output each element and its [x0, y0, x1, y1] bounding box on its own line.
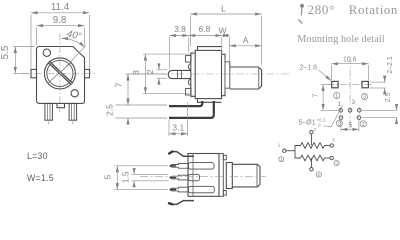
- pin hole 3: [358, 109, 362, 113]
- pin inner lines: [47, 103, 74, 120]
- pin 1: [170, 163, 188, 168]
- wire left bracket: [295, 146, 301, 159]
- pin 2 slot (middle): [188, 174, 199, 181]
- body bottom view: [188, 154, 219, 197]
- svg-text:280°: 280°: [308, 2, 336, 17]
- svg-text:3.8: 3.8: [174, 24, 186, 34]
- centerline horizontal through squares: [327, 84, 374, 86]
- wire tap 2: [310, 134, 312, 146]
- body top cap: [198, 47, 222, 51]
- hole ticks: [341, 107, 360, 121]
- svg-text:2–1.8: 2–1.8: [300, 65, 318, 72]
- svg-text:2: 2: [362, 122, 365, 128]
- svg-text:Rotation: Rotation: [349, 2, 398, 17]
- svg-text:1: 1: [338, 101, 342, 108]
- dimension L: [191, 14, 262, 66]
- pin hole 2: [348, 109, 352, 113]
- svg-text:L: L: [221, 4, 226, 14]
- hole label circled 2 right: [360, 121, 366, 127]
- screw hole top-left: [43, 49, 50, 56]
- dimensions 3.8 6.8 W: [170, 36, 230, 69]
- nub cylinder: [168, 70, 191, 78]
- wire terminal 3': [325, 157, 330, 159]
- right plate: [219, 154, 223, 197]
- pin tips dark: [171, 166, 176, 190]
- svg-text:7: 7: [313, 93, 320, 97]
- bottom center tab: [57, 103, 65, 107]
- svg-text:0: 0: [318, 123, 321, 128]
- bent leg lower (dark): [169, 101, 214, 118]
- svg-text:1.5: 1.5: [121, 171, 131, 183]
- svg-text:2–2.1: 2–2.1: [387, 56, 394, 74]
- left side tab: [31, 69, 37, 77]
- resistor element top: [301, 143, 325, 149]
- svg-text:Mounting hole detail: Mounting hole detail: [297, 34, 384, 45]
- dimension 5 (pins span): [115, 166, 169, 190]
- bracket bottom tab: [186, 89, 192, 96]
- shaft bottom view: [232, 164, 260, 187]
- hole label circled 2 left: [336, 120, 342, 126]
- svg-text:3: 3: [352, 99, 356, 106]
- dimension 2-2.1: [370, 77, 386, 94]
- wire tap 2': [310, 158, 312, 168]
- centerline axis: [131, 73, 291, 75]
- support lug bottom: [172, 201, 194, 205]
- schematic label circled 3: [334, 160, 339, 165]
- svg-text:9.8: 9.8: [53, 15, 67, 26]
- dimension 9.8: [37, 26, 85, 45]
- centerline horizontal front: [22, 72, 97, 74]
- dimension 3.1: [169, 103, 188, 137]
- shaft side: [230, 67, 262, 89]
- front pin left: [45, 103, 53, 120]
- svg-text:1: 1: [335, 94, 338, 100]
- hole label circled 1: [334, 92, 340, 98]
- dimension 7 detail: [321, 85, 338, 111]
- svg-text:2.5: 2.5: [385, 93, 392, 103]
- slot cross thin line: [48, 62, 72, 83]
- shaft outer circle: [44, 58, 75, 89]
- svg-text:2: 2: [338, 121, 341, 127]
- leader 5-dia1: [324, 106, 343, 127]
- svg-text:5–Ø1: 5–Ø1: [299, 120, 316, 127]
- centerline axis bottom view: [140, 175, 266, 177]
- bushing plate: [222, 54, 226, 95]
- support lug top: [172, 151, 194, 156]
- bushing bottom view: [226, 163, 232, 189]
- svg-text:A: A: [243, 35, 249, 45]
- terminal node 2': [310, 168, 313, 171]
- terminal node 3': [330, 156, 333, 159]
- left bracket plate: [191, 53, 195, 96]
- body outline front view: [37, 47, 85, 104]
- bent leg upper (dark): [169, 101, 202, 106]
- dimension 10.6: [331, 64, 368, 80]
- dimension 7 (axis to leg): [126, 74, 167, 105]
- svg-text:3: 3: [363, 95, 366, 101]
- svg-text:W: W: [218, 26, 226, 36]
- dimension 2 (nub): [157, 63, 168, 85]
- wire terminal 3: [325, 145, 330, 147]
- body main: [195, 50, 221, 98]
- right side tab: [85, 69, 90, 77]
- body bottom cap: [198, 99, 222, 103]
- dimension 40 deg: [61, 45, 87, 72]
- svg-text:2: 2: [145, 69, 155, 74]
- svg-text:10.6: 10.6: [343, 57, 357, 64]
- pin 3: [170, 187, 188, 192]
- pin hole 1: [339, 109, 343, 113]
- square hole right: [362, 81, 368, 87]
- screw hole bottom-right: [71, 90, 78, 97]
- bracket top tab: [186, 56, 192, 63]
- dimension 2.5 (legs): [116, 99, 168, 124]
- schematic label circled 2: [316, 172, 321, 177]
- rotation pin icon: [299, 4, 305, 24]
- dimension 5 detail: [341, 121, 359, 132]
- plate tab top: [223, 155, 226, 160]
- hole label circled 3: [361, 94, 367, 100]
- bushing: [225, 62, 230, 88]
- svg-text:11.4: 11.4: [51, 2, 70, 13]
- dimension 2.5 detail: [362, 105, 398, 124]
- pin 2: [170, 175, 188, 180]
- bracket notch upper: [188, 64, 190, 70]
- dimension 8: [143, 54, 193, 94]
- terminal node 2: [310, 130, 313, 133]
- bracket notch lower: [188, 79, 190, 85]
- terminal node 3: [330, 144, 333, 147]
- dimension A: [229, 45, 261, 47]
- svg-text:2.5: 2.5: [105, 104, 115, 116]
- pin hole 2'': [357, 116, 361, 120]
- schematic label circled 1: [279, 157, 284, 162]
- svg-text:W=1.5: W=1.5: [27, 173, 54, 183]
- svg-text:5: 5: [349, 122, 353, 129]
- dimension 5.5: [13, 47, 35, 74]
- pin 3 slot (bottom): [188, 186, 214, 193]
- shaft slot: [48, 62, 72, 84]
- pin hole 2': [339, 116, 343, 120]
- wire terminal 1: [286, 150, 295, 152]
- plate tab bottom: [223, 191, 226, 196]
- front pin right: [69, 103, 77, 120]
- square hole left: [332, 81, 338, 87]
- svg-text:7: 7: [114, 82, 124, 87]
- pin 1 slot (top): [188, 163, 214, 170]
- svg-text:6.8: 6.8: [198, 24, 210, 34]
- svg-text:5: 5: [103, 174, 113, 179]
- svg-text:3.1: 3.1: [172, 123, 184, 133]
- dimension 1.5 (pin width): [132, 168, 169, 187]
- dimension 11.4: [31, 13, 90, 69]
- centerline vertical front: [59, 34, 61, 113]
- pin center ticks: [48, 120, 50, 125]
- svg-text:5.5: 5.5: [0, 45, 11, 59]
- terminal node 1: [283, 149, 286, 152]
- svg-text:L=30: L=30: [27, 151, 48, 161]
- centerline vertical detail: [349, 57, 351, 131]
- resistor element bottom: [301, 155, 325, 161]
- shaft inner circle: [47, 60, 73, 86]
